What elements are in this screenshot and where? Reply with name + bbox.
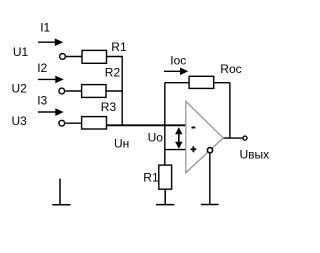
svg-text:Uо: Uо: [148, 130, 164, 144]
svg-text:Uвых: Uвых: [240, 147, 270, 161]
svg-text:U2: U2: [12, 82, 28, 96]
svg-text:I3: I3: [37, 94, 47, 108]
svg-text:R1: R1: [111, 40, 127, 54]
svg-text:I1: I1: [40, 21, 50, 35]
svg-text:I2: I2: [37, 61, 47, 75]
svg-text:Roc: Roc: [220, 62, 241, 76]
svg-text:Uн: Uн: [114, 136, 129, 150]
svg-text:Ioc: Ioc: [170, 53, 186, 67]
svg-text:U1: U1: [13, 45, 29, 59]
svg-text:U3: U3: [12, 114, 28, 128]
svg-text:R3: R3: [101, 100, 117, 114]
svg-text:R2: R2: [105, 66, 121, 80]
svg-text:R1: R1: [143, 170, 159, 184]
